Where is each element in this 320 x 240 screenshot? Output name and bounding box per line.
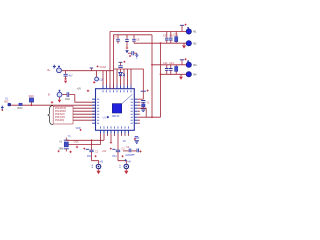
wire [73,107,96,109]
power flag [77,87,90,92]
svg-text:26M: 26M [59,147,64,150]
power flag [110,148,116,150]
exposed pad [112,94,132,113]
wire [11,104,96,106]
wire [117,134,119,150]
microphone MK1 [4,98,11,107]
wire [103,71,107,85]
battery terminal J1 [48,65,62,72]
wire [103,134,105,141]
power [110,141,112,143]
pin names left [97,99,99,124]
ground [1,106,4,111]
wire [73,113,96,115]
capacitor C1 [65,92,71,101]
motor M5 [92,161,104,169]
capacitor C19 [116,147,125,160]
wire [68,144,100,146]
capacitor C9 [163,32,169,44]
capacitor C12 [163,62,169,75]
net label [87,155,97,158]
svg-text:B-: B- [48,93,51,96]
capacitor C4 [118,66,122,68]
ground [64,81,67,84]
svg-text:C13: C13 [169,62,174,65]
power [125,159,127,161]
junction [160,42,162,44]
junction [151,116,153,118]
wire [118,161,126,165]
battery terminal J2 [48,90,62,97]
svg-text:PA0: PA0 [87,155,92,158]
svg-text:NRF24: NRF24 [112,115,120,118]
power flag [51,101,53,103]
power flag [141,90,149,100]
svg-text:+3V: +3V [77,87,82,90]
junction [151,64,153,66]
capacitor C13 [169,62,174,75]
capacitor C6 [125,35,129,53]
capacitor C15 [141,101,145,104]
wire [114,34,153,36]
power [69,151,71,153]
wire [138,102,141,105]
wire [151,35,153,117]
diode D1 [119,69,125,85]
crystal Y1 [59,135,72,151]
svg-text:AVDD: AVDD [125,154,132,157]
capacitor C20 [126,146,131,152]
wire [114,134,116,136]
capacitor C21 [137,149,142,153]
wire [161,73,187,75]
wire [62,94,66,96]
wire [92,161,99,165]
power flag [76,127,82,131]
wire [131,150,136,152]
capacitor C18 [89,150,98,161]
wire [122,134,129,136]
ground [124,169,128,174]
capacitor C3 [128,51,138,58]
pin numbers bottom [100,135,129,136]
capacitor C10 [169,32,174,44]
wire [160,43,162,117]
wire [100,134,102,145]
wire [138,98,144,100]
pin names top [103,90,132,92]
svg-text:4u7: 4u7 [69,75,74,78]
net label box [53,106,73,124]
wire [66,139,104,141]
net label [125,154,134,157]
capacitor C7 [132,35,140,43]
wire [109,32,111,89]
ground [182,43,186,48]
ground [96,169,100,174]
power [58,150,60,152]
refdes U1 [103,116,109,119]
oscillator G1 [93,71,104,84]
junction [91,139,93,141]
motor M4 [186,72,197,77]
svg-text:+5V: +5V [102,150,107,153]
wire [73,119,96,121]
power [64,78,66,80]
pin numbers top [103,83,132,84]
motor M6 [120,161,132,169]
motor M3 [186,60,197,67]
svg-text:BLM: BLM [18,107,23,110]
svg-text:MIC: MIC [4,100,9,103]
capacitor C5 [114,35,120,44]
ground [141,109,146,112]
svg-text:PA1: PA1 [112,155,117,158]
power flag VCC [90,65,107,70]
wire [69,95,95,103]
wire [138,116,161,118]
ground flag [134,136,139,143]
motor M1 [186,27,197,34]
svg-text:P04/IRQ: P04/IRQ [55,119,64,122]
wire [110,31,186,33]
op-amp U1 (QFN MCU) [92,85,138,134]
capacitor C11 [174,32,179,44]
junction [160,73,162,75]
brace [48,106,53,125]
ground [179,74,183,80]
wire [138,108,146,117]
svg-text:SW1: SW1 [29,95,35,98]
svg-text:VCCA: VCCA [100,66,107,69]
motor M2 [186,41,197,46]
crystal Y2 [142,101,150,108]
power flag [119,61,126,66]
power [76,146,78,148]
power flag [180,58,187,65]
capacitor C14 [175,65,178,75]
wire [152,64,186,66]
power flag [180,24,187,32]
wire [123,150,129,152]
wire [114,69,144,91]
wire [134,42,186,44]
ground [58,97,62,102]
wire [73,116,96,118]
wire [138,111,140,123]
switch S1 [29,95,35,105]
pin stubs top [103,85,131,89]
svg-text:C11: C11 [174,34,179,37]
pin names right [131,99,133,124]
capacitor C0 [64,71,74,78]
svg-text:VDD: VDD [76,127,81,130]
wire [107,134,109,136]
junction [31,104,33,106]
wire [91,140,93,150]
wire [62,70,114,72]
wire [110,134,112,142]
wire [73,110,96,112]
svg-text:100n: 100n [65,98,71,101]
svg-text:C12: C12 [163,62,168,65]
ground [53,65,56,68]
wire [113,35,115,89]
pin stubs right [134,99,138,123]
svg-text:VD: VD [123,140,127,143]
net label [112,155,123,158]
ferrite bead FB1 [18,103,23,110]
pin stubs left [92,99,96,123]
power flag [83,148,89,150]
svg-text:OSC: OSC [74,141,79,144]
wire [117,69,131,85]
pin names bottom [100,126,129,128]
pin stubs bottom [101,130,129,134]
